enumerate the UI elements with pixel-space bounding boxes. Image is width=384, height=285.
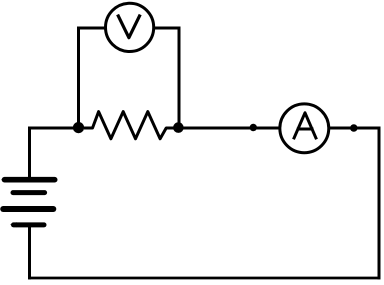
resistor R1 zigzag	[84, 112, 174, 139]
ammeter A1 circle	[280, 104, 329, 153]
wire: ammeter right lead to corner	[328, 127, 381, 130]
wire: voltmeter left horizontal lead	[77, 27, 106, 30]
wire: voltmeter left vertical branch	[77, 27, 80, 125]
wire: top-left horizontal from left corner to node A	[28, 127, 79, 130]
wire: left vertical from battery bottom to bottom-left corner	[28, 227, 31, 279]
ammeter A label	[294, 113, 317, 140]
node D small dot on wire	[350, 124, 358, 132]
battery B1 bottom plate (short, negative)	[14, 222, 45, 227]
wire: voltmeter right vertical branch	[178, 27, 181, 125]
battery B1 third plate (long, positive)	[3, 206, 53, 212]
voltmeter V1 circle	[106, 3, 154, 51]
voltmeter V label	[118, 15, 141, 38]
wire: left vertical from corner down to battery top	[28, 127, 31, 178]
battery B1 top plate (long, positive)	[5, 177, 55, 183]
wire: node B to ammeter left lead	[178, 127, 281, 130]
node B junction dot (right of resistor)	[173, 122, 184, 133]
wire: right vertical	[378, 127, 381, 280]
node A junction dot (left of resistor)	[73, 122, 84, 133]
wire: voltmeter right horizontal lead	[153, 27, 180, 30]
wire: bottom horizontal	[28, 277, 380, 280]
node C small dot on wire	[250, 124, 257, 131]
battery B1 second plate (short, negative)	[13, 190, 45, 195]
